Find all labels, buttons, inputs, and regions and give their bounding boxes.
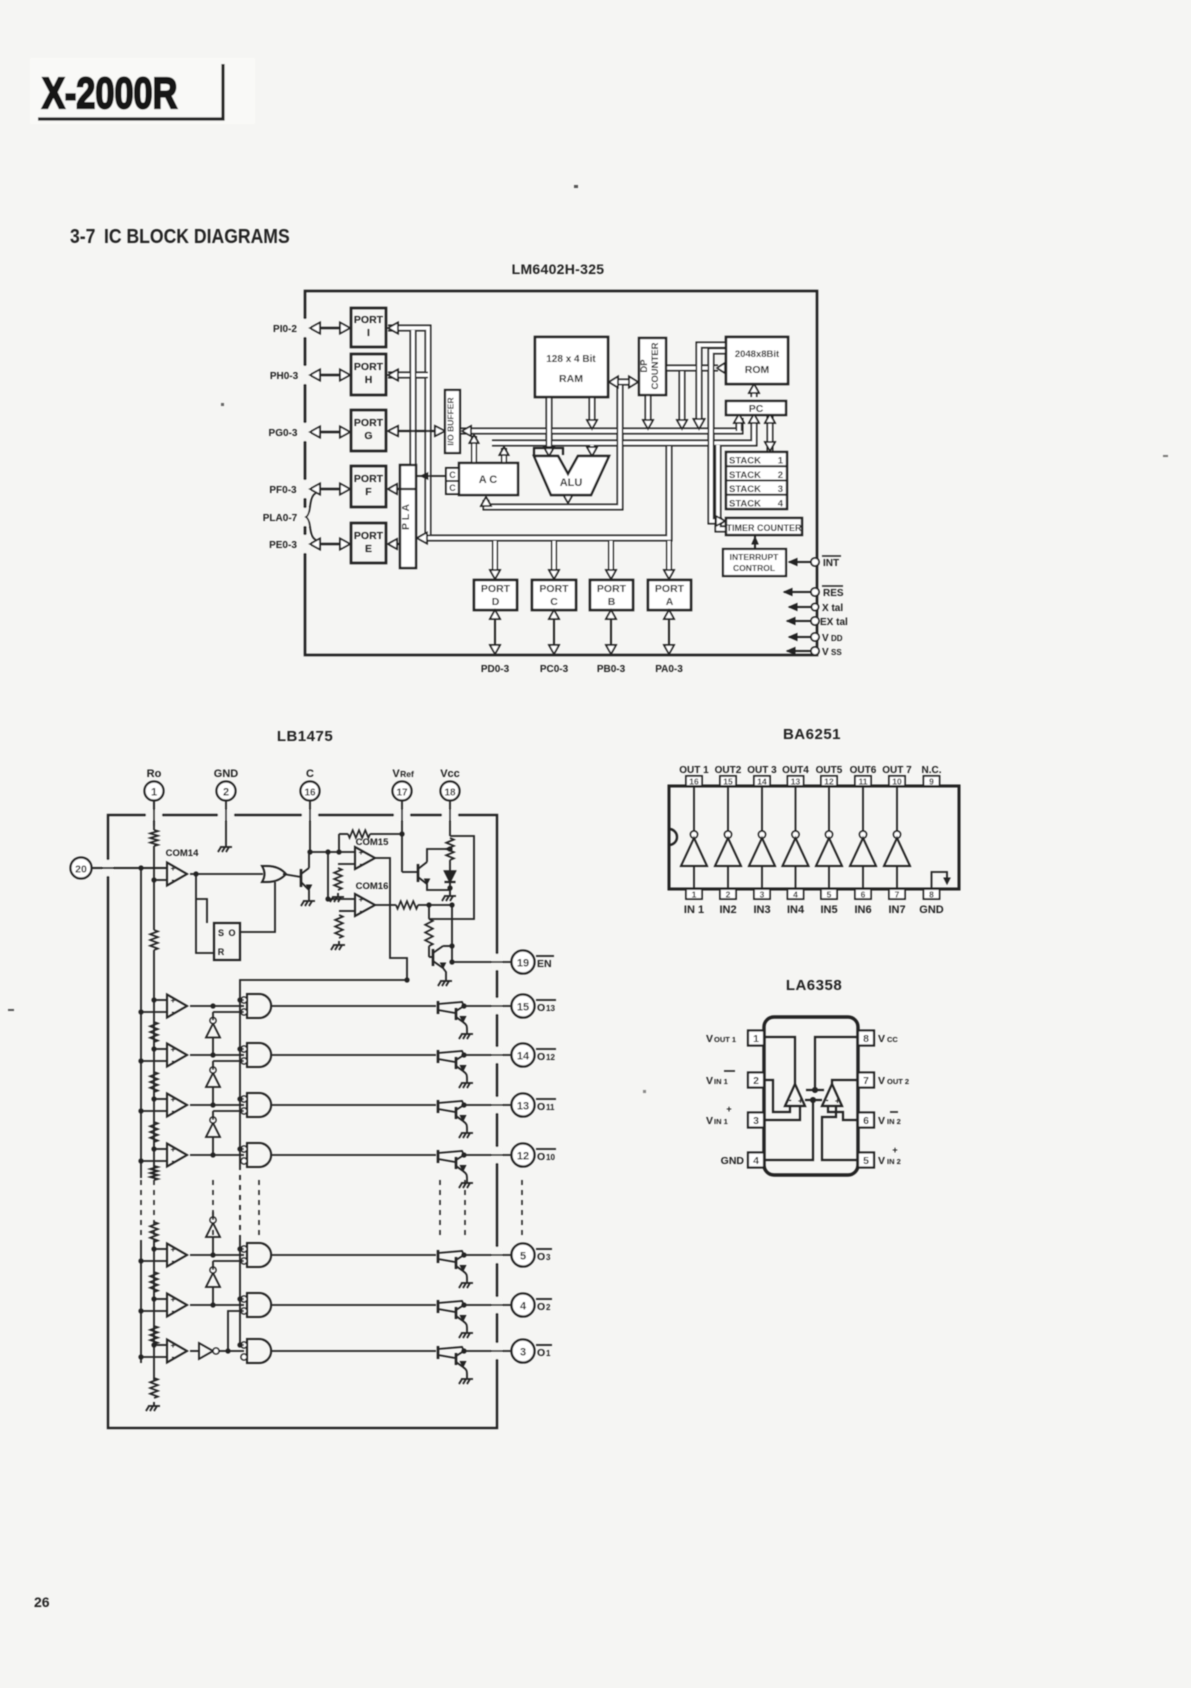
block PORT A xyxy=(648,580,691,610)
ground under COM16 resistor xyxy=(331,941,345,950)
block PORT E xyxy=(351,523,386,563)
svg-text:4: 4 xyxy=(520,1301,527,1313)
resistor under COM15 xyxy=(334,864,355,890)
wire ports DCBA drops xyxy=(490,541,674,579)
block PC xyxy=(726,401,786,415)
BA6251 top pin 15 OUT2 xyxy=(715,765,742,787)
ground row O10 xyxy=(459,1179,473,1188)
svg-text:O: O xyxy=(228,928,235,938)
wire feedback resistor to VRef xyxy=(339,834,348,852)
brace PLA0-7 xyxy=(306,493,316,540)
svg-text:-: - xyxy=(172,1007,175,1017)
block DP COUNTER xyxy=(639,338,666,395)
svg-text:P L A: P L A xyxy=(400,504,412,530)
LA6358 pin 3 xyxy=(706,1104,764,1128)
comparator row O12 xyxy=(138,1044,187,1067)
wire bus1 main data bus xyxy=(461,418,740,431)
wire RAM to ALU xyxy=(546,397,553,452)
wire and out O10 xyxy=(271,1154,436,1156)
inverter row O1 horizontal xyxy=(199,1311,244,1359)
wire and out O12 xyxy=(271,1054,436,1056)
inverter driver 6 xyxy=(850,786,876,889)
svg-text:IN 1: IN 1 xyxy=(684,904,704,916)
wire ROM line down to bus1 xyxy=(679,368,686,424)
svg-text:2: 2 xyxy=(546,1303,551,1312)
labels left ports xyxy=(263,324,299,551)
wire AC up arrows xyxy=(470,435,509,462)
block PORT F xyxy=(351,466,386,507)
and gate O10 xyxy=(237,1143,271,1167)
BA6251 top pin 13 OUT4 xyxy=(782,765,809,787)
svg-text:-: - xyxy=(360,859,363,869)
block STACK registers xyxy=(726,452,787,509)
svg-text:5: 5 xyxy=(520,1251,526,1263)
svg-text:IN3: IN3 xyxy=(753,904,770,916)
svg-text:3: 3 xyxy=(753,1115,759,1127)
svg-text:D: D xyxy=(492,596,500,608)
svg-text:IN4: IN4 xyxy=(787,904,805,916)
block PORT G xyxy=(351,410,386,451)
arrow PLA to PORT F xyxy=(388,484,416,494)
LB1475 box gaps xyxy=(103,810,502,1359)
block INTERRUPT CONTROL xyxy=(723,549,786,576)
pin 1 Ro xyxy=(145,768,164,826)
svg-text:CC: CC xyxy=(887,1035,898,1044)
resistor Vcc xyxy=(446,838,454,860)
arrow PLA to PORT E xyxy=(388,539,400,549)
svg-text:12: 12 xyxy=(517,1151,529,1163)
resistor chain bottom xyxy=(150,1378,158,1398)
svg-text:-: - xyxy=(172,1106,175,1116)
svg-text:18: 18 xyxy=(444,788,456,799)
resistor under COM16 xyxy=(335,911,355,938)
svg-text:8: 8 xyxy=(863,1033,869,1045)
pin 3 O1 xyxy=(512,1340,553,1363)
ground pin2 xyxy=(218,843,232,852)
wire PORT G to IO buffer xyxy=(388,426,445,436)
wire out row O3 xyxy=(464,1254,511,1256)
svg-text:F: F xyxy=(365,486,372,498)
svg-text:C: C xyxy=(449,483,456,493)
svg-text:PG0-3: PG0-3 xyxy=(269,428,298,439)
comparator row O11 xyxy=(138,1094,187,1117)
pin 17 VRef xyxy=(392,768,414,872)
wire or out xyxy=(283,874,301,877)
svg-text:O: O xyxy=(537,1151,545,1163)
LA6358 pin 5 xyxy=(858,1145,901,1168)
svg-text:+: + xyxy=(798,1096,803,1106)
BA6251 bottom pin 5 IN5 xyxy=(820,889,837,916)
wire out row O1 xyxy=(464,1350,511,1352)
wire PC up arrows xyxy=(739,388,770,451)
svg-text:-: - xyxy=(172,1156,175,1166)
pin 18 Vcc xyxy=(440,768,460,836)
wire vref to Q2 base xyxy=(402,871,418,873)
wire bus ports DCBA xyxy=(421,445,669,538)
svg-text:IN 2: IN 2 xyxy=(887,1117,901,1126)
BA6251 body xyxy=(669,786,959,889)
svg-text:2: 2 xyxy=(778,470,783,481)
BA6251 notch xyxy=(669,829,677,845)
pin 5 O3 xyxy=(512,1244,553,1267)
left port IO arrows xyxy=(310,323,350,550)
LA6358 wires xyxy=(764,1037,858,1160)
noise specks xyxy=(8,185,1168,1093)
ground zener xyxy=(442,892,456,901)
svg-text:1: 1 xyxy=(778,456,784,467)
arrowheads buses xyxy=(388,323,775,544)
svg-text:-: - xyxy=(826,1095,829,1105)
block ROM 2048x8 xyxy=(726,337,788,384)
svg-text:+: + xyxy=(835,1096,840,1106)
svg-text:Vcc: Vcc xyxy=(440,768,460,780)
wire vertical bus to PLA top xyxy=(410,330,417,465)
svg-text:-: - xyxy=(172,1306,175,1316)
block ALU xyxy=(534,448,609,495)
wire C box to PLA xyxy=(416,473,446,480)
wire timer to interrupt xyxy=(752,535,758,549)
svg-text:1: 1 xyxy=(151,787,157,799)
svg-text:OUT2: OUT2 xyxy=(715,765,742,776)
transistor Q3 EN xyxy=(429,943,455,977)
svg-text:+: + xyxy=(359,895,364,904)
wire and out O3 xyxy=(271,1254,436,1256)
pin 2 GND xyxy=(214,768,239,843)
resistor COM15 feedback xyxy=(348,830,370,838)
transistor Q1 xyxy=(301,853,312,897)
ground row O2 xyxy=(459,1329,473,1338)
wire com16 top input xyxy=(325,852,355,902)
wire and out O2 xyxy=(271,1304,436,1306)
svg-text:15: 15 xyxy=(517,1002,529,1014)
block PORT I xyxy=(351,308,386,347)
svg-text:+: + xyxy=(171,1145,176,1154)
svg-text:IN 2: IN 2 xyxy=(887,1157,901,1166)
svg-text:OUT 3: OUT 3 xyxy=(747,765,777,776)
pin 4 O2 xyxy=(512,1294,553,1317)
block PORT C xyxy=(532,580,576,610)
svg-text:PF0-3: PF0-3 xyxy=(269,485,297,496)
right side chip pins xyxy=(784,556,848,658)
svg-text:INTERRUPT: INTERRUPT xyxy=(730,552,779,562)
inverter driver 2 xyxy=(715,786,741,889)
LA6358 pin 7 xyxy=(858,1073,909,1088)
svg-text:BA6251: BA6251 xyxy=(783,726,841,743)
resistor Ro chain 2 xyxy=(150,930,158,950)
svg-text:13: 13 xyxy=(517,1101,529,1113)
resistor Ro top xyxy=(150,801,158,847)
wire out row O13 xyxy=(464,1005,511,1007)
svg-text:ALU: ALU xyxy=(560,477,583,489)
svg-text:PE0-3: PE0-3 xyxy=(269,540,297,551)
wire com16 output xyxy=(375,904,396,906)
svg-text:OUT6: OUT6 xyxy=(850,765,877,776)
svg-text:19: 19 xyxy=(517,958,529,970)
svg-text:OUT 1: OUT 1 xyxy=(679,765,709,776)
op-amp A1 xyxy=(785,1084,805,1106)
svg-text:PORT: PORT xyxy=(655,583,685,595)
wire rail Ro chain xyxy=(153,950,155,1380)
wire com14 out xyxy=(190,871,263,876)
svg-text:26: 26 xyxy=(34,1594,50,1610)
svg-text:IN 1: IN 1 xyxy=(714,1117,728,1126)
svg-text:2: 2 xyxy=(753,1075,759,1087)
pin 13 O11 xyxy=(512,1094,557,1117)
svg-text:EX tal: EX tal xyxy=(820,617,848,628)
ground row O3 xyxy=(459,1279,473,1288)
svg-text:V: V xyxy=(878,1155,885,1167)
wire ROM left link lower to timer xyxy=(711,351,726,521)
svg-text:OUT5: OUT5 xyxy=(816,765,843,776)
wire DP counter down to bus1 xyxy=(645,395,652,424)
wire ALU output loop bus xyxy=(486,382,620,507)
svg-text:STACK: STACK xyxy=(729,470,761,481)
svg-text:E: E xyxy=(365,543,372,555)
wire DP to ROM xyxy=(666,365,718,372)
svg-text:3: 3 xyxy=(760,890,765,900)
svg-text:A C: A C xyxy=(479,474,498,486)
ground under COM15 resistor xyxy=(330,893,344,902)
pin 20 input xyxy=(71,858,168,879)
svg-text:PI0-2: PI0-2 xyxy=(273,324,297,335)
svg-text:V: V xyxy=(706,1115,713,1127)
svg-text:3: 3 xyxy=(546,1253,551,1262)
and gate O13 xyxy=(237,994,271,1018)
LB1475 outer box xyxy=(108,815,497,1428)
svg-text:1: 1 xyxy=(546,1349,551,1358)
op-amp A2 xyxy=(822,1084,842,1106)
svg-text:+: + xyxy=(171,1245,176,1254)
svg-text:DP: DP xyxy=(639,359,650,373)
ground row O11 xyxy=(459,1129,473,1138)
svg-text:O: O xyxy=(537,1301,545,1313)
svg-text:O: O xyxy=(537,1347,545,1359)
svg-text:11: 11 xyxy=(546,1103,555,1112)
port bottom arrows xyxy=(490,610,674,654)
inverter between rows 1 xyxy=(206,1012,244,1055)
svg-text:128 x 4 Bit: 128 x 4 Bit xyxy=(546,354,596,365)
svg-text:+: + xyxy=(892,1145,897,1155)
comparator COM14 xyxy=(166,848,199,886)
svg-text:-: - xyxy=(172,1352,175,1362)
resistor com16 out xyxy=(396,901,418,909)
wire vertical bus to PORT I and PORT H xyxy=(388,328,428,540)
svg-text:15: 15 xyxy=(723,777,733,787)
svg-text:PH0-3: PH0-3 xyxy=(270,371,299,382)
wire enable rail xyxy=(239,994,241,1345)
svg-text:STACK: STACK xyxy=(729,456,761,467)
svg-text:O: O xyxy=(537,1251,545,1263)
svg-text:TIMER COUNTER: TIMER COUNTER xyxy=(727,523,802,533)
block PLA xyxy=(400,465,416,568)
BA6251 top pin 14 OUT 3 xyxy=(747,765,777,787)
svg-text:6: 6 xyxy=(863,1115,869,1127)
wire comparator out O11 xyxy=(190,1102,244,1107)
BA6251 bottom pin 6 IN6 xyxy=(854,889,871,916)
svg-text:Ro: Ro xyxy=(147,768,162,780)
svg-text:V: V xyxy=(822,633,829,644)
wire rail pin20 xyxy=(140,868,142,1363)
comparator row O1 xyxy=(138,1340,187,1363)
BA6251 gnd mark xyxy=(944,878,950,884)
LA6358 pin 4 xyxy=(721,1153,764,1168)
svg-text:12: 12 xyxy=(546,1053,555,1062)
svg-text:V: V xyxy=(878,1033,885,1045)
logo frame xyxy=(38,64,223,119)
svg-text:IN 1: IN 1 xyxy=(714,1077,728,1086)
svg-text:A: A xyxy=(666,596,674,608)
svg-text:O: O xyxy=(537,1101,545,1113)
block PORT H xyxy=(351,354,386,395)
svg-text:LA6358: LA6358 xyxy=(786,977,842,994)
svg-text:V: V xyxy=(706,1075,713,1087)
svg-text:B: B xyxy=(608,596,616,608)
transistor pair O10 xyxy=(438,1150,467,1179)
svg-text:V: V xyxy=(822,647,829,658)
wire bus2 to ALU right input xyxy=(589,445,596,452)
svg-text:4: 4 xyxy=(753,1155,759,1167)
LM6402 outer border xyxy=(305,291,817,655)
zener diode D1 xyxy=(445,860,456,892)
inverter driver 7 xyxy=(884,786,910,889)
wire comparator out O1 xyxy=(190,1350,199,1352)
svg-text:PC: PC xyxy=(749,403,764,415)
block PORT B xyxy=(590,580,633,610)
wire ROM left link upper xyxy=(699,345,726,423)
ground Q3 xyxy=(438,977,452,986)
svg-text:5: 5 xyxy=(827,890,832,900)
svg-text:RES: RES xyxy=(823,588,844,599)
svg-text:3-7: 3-7 xyxy=(70,225,95,247)
svg-text:PORT: PORT xyxy=(354,530,384,542)
wire comparator out O13 xyxy=(190,1003,244,1008)
pin 12 O10 xyxy=(512,1144,557,1167)
svg-text:V: V xyxy=(878,1115,885,1127)
wire out row O11 xyxy=(464,1104,511,1106)
svg-text:R: R xyxy=(218,947,225,957)
svg-text:16: 16 xyxy=(689,777,699,787)
comparator row O3 xyxy=(138,1244,187,1267)
svg-text:EN: EN xyxy=(537,958,552,970)
svg-text:PORT: PORT xyxy=(354,473,384,485)
ground row O1 xyxy=(459,1375,473,1384)
wire com15 output loop xyxy=(375,858,407,980)
wire and out O1 xyxy=(271,1350,436,1352)
BA6251 internal gnd xyxy=(932,872,948,889)
svg-text:LM6402H-325: LM6402H-325 xyxy=(512,261,605,277)
dashed continuation lines xyxy=(141,1180,522,1240)
transistor pair O12 xyxy=(438,1050,467,1079)
transistor Q2 xyxy=(418,849,450,890)
BA6251 bottom pin 3 IN3 xyxy=(753,889,770,916)
svg-text:C: C xyxy=(449,470,456,480)
svg-text:PORT: PORT xyxy=(597,583,627,595)
svg-text:11: 11 xyxy=(859,777,868,787)
inverter before O3 xyxy=(206,1212,220,1255)
BA6251 top pin 16 OUT 1 xyxy=(679,765,709,787)
svg-text:IN7: IN7 xyxy=(888,904,905,916)
svg-text:PORT: PORT xyxy=(354,417,384,429)
comparator COM15 xyxy=(355,837,389,869)
svg-text:6: 6 xyxy=(861,890,866,900)
wire comparator out O3 xyxy=(190,1252,244,1257)
svg-text:1: 1 xyxy=(753,1033,759,1045)
wire and out O13 xyxy=(271,1005,436,1007)
svg-text:RAM: RAM xyxy=(559,373,583,385)
svg-text:OUT 7: OUT 7 xyxy=(882,765,912,776)
transistor pair O13 xyxy=(438,1001,467,1030)
svg-text:OUT 2: OUT 2 xyxy=(887,1077,909,1086)
svg-text:Ref: Ref xyxy=(400,769,414,779)
svg-text:STACK: STACK xyxy=(729,484,761,495)
LA6358 pin 8 xyxy=(858,1031,898,1046)
LA6358 pin 2 xyxy=(706,1071,764,1088)
svg-text:2: 2 xyxy=(726,890,731,900)
svg-text:IC BLOCK DIAGRAMS: IC BLOCK DIAGRAMS xyxy=(104,225,290,247)
svg-text:X tal: X tal xyxy=(822,603,843,614)
svg-text:-: - xyxy=(789,1095,792,1105)
svg-text:IN5: IN5 xyxy=(820,904,837,916)
and gate O3 xyxy=(237,1243,271,1267)
svg-text:-: - xyxy=(172,875,175,885)
svg-text:17: 17 xyxy=(396,788,408,799)
svg-text:COM14: COM14 xyxy=(166,848,199,859)
BA6251 bottom pin 2 IN2 xyxy=(719,889,736,916)
BA6251 bottom pin 7 IN7 xyxy=(888,889,905,916)
svg-text:GND: GND xyxy=(214,768,239,780)
BA6251 top pin 9 N.C. xyxy=(922,765,942,787)
block PORT D xyxy=(474,580,517,610)
inverter between rows 3 xyxy=(206,1111,244,1155)
transistor pair O1 xyxy=(438,1346,467,1375)
svg-text:12: 12 xyxy=(824,777,834,787)
svg-text:+: + xyxy=(726,1104,731,1114)
svg-text:7: 7 xyxy=(895,890,900,900)
svg-text:V: V xyxy=(878,1075,885,1087)
svg-text:OUT4: OUT4 xyxy=(782,765,809,776)
svg-text:4: 4 xyxy=(778,498,784,509)
transistor pair O11 xyxy=(438,1100,467,1129)
svg-text:+: + xyxy=(171,1095,176,1104)
wire RAM DP bidirectional xyxy=(616,379,631,386)
svg-text:-: - xyxy=(360,906,363,916)
wire en collector rail xyxy=(449,902,454,962)
svg-text:4: 4 xyxy=(793,890,798,900)
svg-text:PORT: PORT xyxy=(354,361,384,373)
BA6251 top pin 11 OUT6 xyxy=(850,765,877,787)
wire enable rail top xyxy=(240,977,410,994)
svg-text:PORT: PORT xyxy=(354,314,384,326)
wire resistor to vref node xyxy=(370,831,405,836)
inverter driver 3 xyxy=(749,786,775,889)
LA6358 pin 6 xyxy=(858,1112,901,1128)
svg-text:SS: SS xyxy=(831,648,842,657)
svg-text:G: G xyxy=(364,430,372,442)
pin 15 O13 xyxy=(512,995,557,1018)
block AC accumulator xyxy=(459,463,518,495)
wire com14 to flipflop xyxy=(196,874,214,953)
inverter driver 5 xyxy=(816,786,842,889)
wire out row O12 xyxy=(464,1054,511,1056)
block C C flags xyxy=(446,468,459,494)
svg-text:O: O xyxy=(537,1002,545,1014)
svg-text:COM15: COM15 xyxy=(356,837,389,848)
svg-text:5: 5 xyxy=(863,1155,869,1167)
svg-text:COM16: COM16 xyxy=(356,881,389,892)
wire flipflop O to OR gate xyxy=(240,882,275,932)
svg-text:PORT: PORT xyxy=(539,583,569,595)
svg-text:PLA0-7: PLA0-7 xyxy=(263,513,298,524)
